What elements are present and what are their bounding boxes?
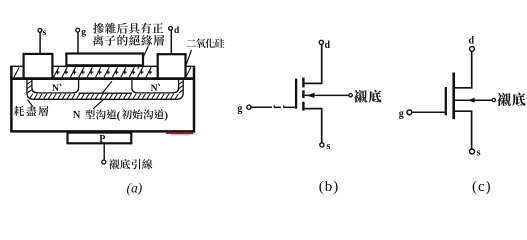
arrow (N-channel, pointing to gate)	[307, 93, 315, 98]
depletion side hatching	[27, 81, 183, 93]
leader line to depletion layer	[27, 100, 32, 107]
svg-text:(b): (b)	[319, 179, 340, 195]
label: doped insulator line1	[93, 23, 163, 34]
svg-text:s: s	[43, 28, 47, 38]
semiconductor surface line	[10, 77, 195, 80]
wire source	[455, 111, 472, 149]
depletion layer outer boundary	[27, 80, 183, 100]
node s terminal	[320, 143, 324, 147]
label: substrate (c)	[497, 93, 525, 107]
label: channel chars2	[122, 109, 164, 119]
svg-text:): )	[164, 109, 168, 121]
channel bar segment (drain)	[302, 78, 304, 88]
node substrate terminal	[102, 160, 106, 164]
node d (terminal circle)	[169, 26, 173, 30]
svg-text:N: N	[52, 84, 59, 94]
svg-text:(c): (c)	[472, 179, 492, 195]
leader line to channel (lower)	[93, 100, 103, 109]
wire drain	[455, 51, 472, 87]
leader line to channel (upper)	[103, 81, 112, 93]
leader line to insulating layer	[138, 47, 148, 69]
wire substrate lead	[103, 143, 105, 160]
insulator (SiO2) layer top edge	[10, 65, 195, 67]
gate metal electrode	[66, 54, 143, 66]
svg-text:g: g	[399, 108, 404, 119]
label: substrate (b)	[354, 90, 382, 103]
wire d lead	[170, 30, 172, 55]
svg-text:g: g	[81, 28, 86, 38]
P substrate body outline	[10, 66, 195, 132]
N+ source region outline	[32, 80, 79, 93]
wire s lead	[39, 32, 41, 55]
channel bar segment (substrate)	[302, 90, 304, 98]
wire drain	[305, 45, 322, 84]
drain metal contact	[158, 54, 186, 78]
channel bar segment (source)	[302, 102, 304, 111]
svg-text:N: N	[73, 110, 81, 121]
svg-text:s: s	[326, 141, 330, 152]
wire substrate with arrow	[455, 99, 492, 101]
svg-text:N: N	[151, 84, 158, 94]
svg-text:(a): (a)	[127, 181, 143, 196]
wire substrate with arrow	[305, 94, 349, 96]
N-type channel top edge	[79, 92, 132, 94]
node s (terminal circle)	[38, 29, 42, 33]
wire g lead	[77, 32, 79, 54]
label: channel chars1	[85, 109, 116, 119]
gate bar	[445, 87, 447, 115]
node g (terminal circle)	[76, 28, 80, 32]
svg-text:d: d	[325, 40, 331, 51]
source metal contact	[24, 54, 53, 79]
depletion layer hatching	[30, 94, 179, 99]
svg-text:P: P	[99, 134, 105, 145]
node s terminal	[470, 149, 475, 154]
scan artifact (red streak)	[166, 132, 194, 135]
insulator layer hatching	[14, 67, 191, 77]
svg-text:(: (	[117, 109, 121, 121]
label: silicon dioxide	[187, 38, 225, 48]
leader line to oxide block	[185, 50, 191, 67]
N+ drain region outline	[132, 80, 179, 93]
channel bar (solid)	[452, 73, 455, 120]
label: depletion layer	[14, 106, 49, 116]
gate bar	[295, 79, 297, 109]
node substrate terminal	[349, 94, 352, 97]
label: substrate lead	[109, 159, 152, 169]
wire gate	[412, 111, 446, 113]
node d terminal	[319, 40, 323, 44]
svg-text:d: d	[174, 26, 180, 36]
positive ion "+" marks in insulator	[56, 70, 152, 74]
node g terminal	[407, 110, 412, 115]
wire gate (with dash marks)	[251, 106, 272, 108]
node d terminal	[470, 47, 475, 52]
svg-text:s: s	[477, 148, 481, 159]
node substrate terminal	[492, 98, 495, 101]
svg-text:d: d	[469, 35, 475, 46]
node g terminal	[247, 105, 251, 109]
P substrate contact block	[68, 133, 132, 144]
label: doped insulator line2	[93, 35, 164, 46]
wire source	[305, 109, 322, 143]
svg-text:g: g	[237, 103, 242, 114]
arrow (N-channel, pointing to gate)	[468, 98, 475, 103]
